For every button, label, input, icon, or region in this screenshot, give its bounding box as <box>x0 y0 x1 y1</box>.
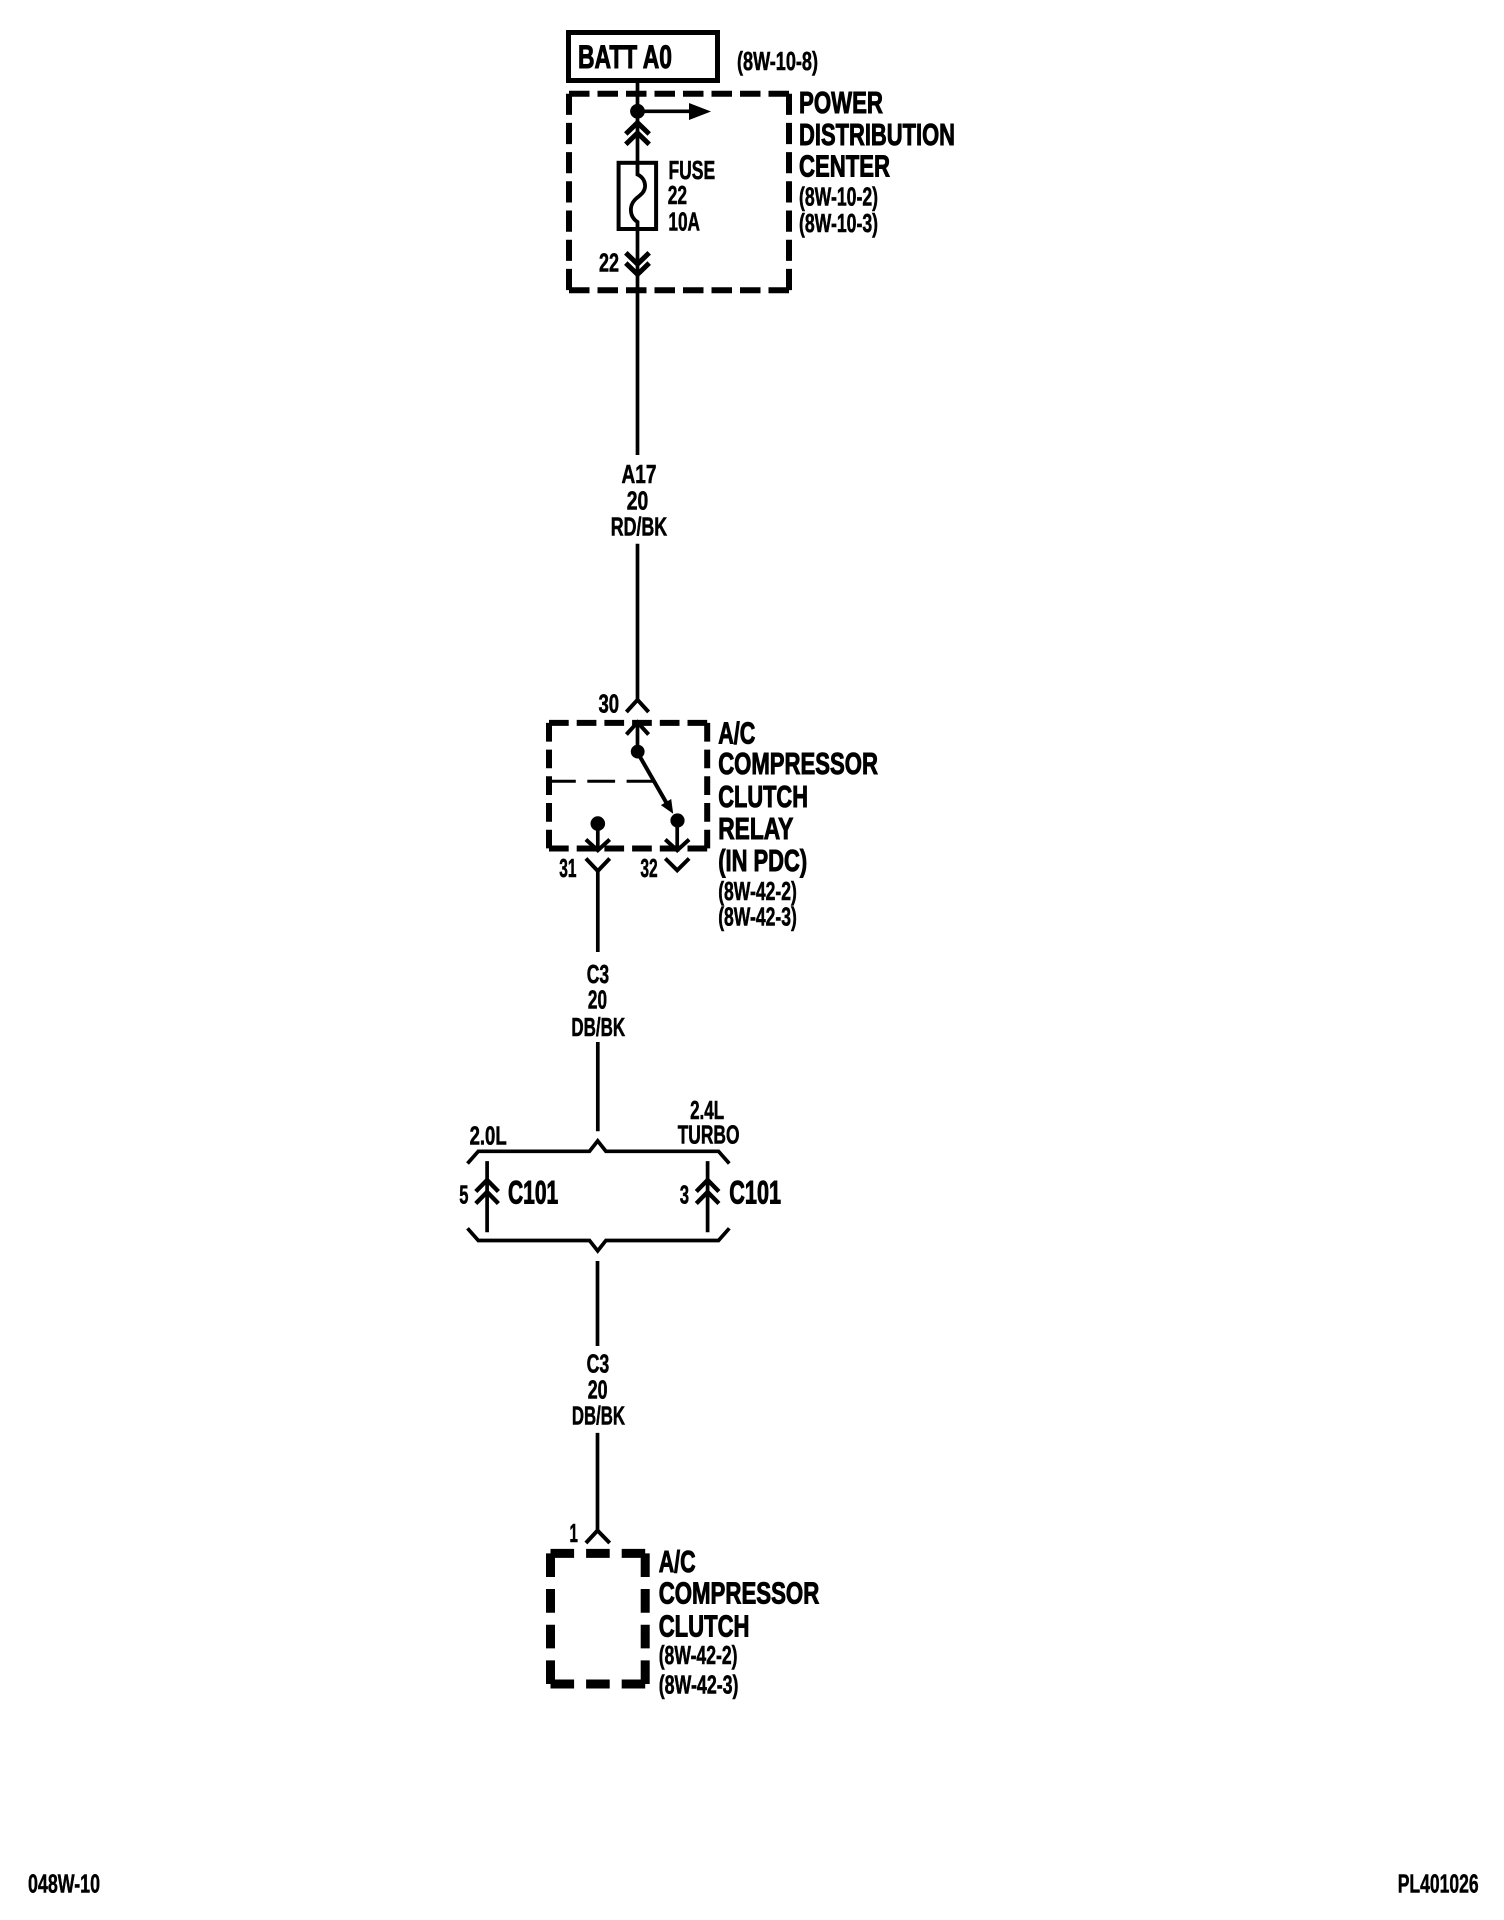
pin32 arrow chevron inside <box>665 840 689 851</box>
splice bottom brace <box>468 1228 730 1251</box>
svg-text:DB/BK: DB/BK <box>572 1401 625 1431</box>
references (8W-10-2)(8W-10-3) <box>799 182 878 238</box>
svg-text:RELAY: RELAY <box>718 811 793 846</box>
relay contact dot pin 32 <box>670 813 684 827</box>
svg-text:CLUTCH: CLUTCH <box>659 1609 750 1644</box>
svg-text:30: 30 <box>599 689 620 719</box>
svg-text:2.0L: 2.0L <box>470 1121 507 1151</box>
svg-text:3: 3 <box>680 1179 689 1209</box>
wire label C3 20 DB/BK (lower) <box>572 1349 625 1431</box>
svg-text:(8W-42-2): (8W-42-2) <box>659 1640 738 1670</box>
svg-text:(8W-42-3): (8W-42-3) <box>718 902 797 932</box>
clutch caption <box>659 1544 820 1644</box>
svg-text:048W-10: 048W-10 <box>28 1869 100 1899</box>
svg-text:A17: A17 <box>622 459 657 489</box>
svg-text:22: 22 <box>599 248 619 278</box>
relay contact dot pin 31 <box>591 816 606 831</box>
in-line connector (double chevron up) <box>626 123 649 145</box>
wire BATT A0 to fuse <box>636 83 640 163</box>
svg-text:COMPRESSOR: COMPRESSOR <box>659 1576 820 1611</box>
svg-text:CENTER: CENTER <box>799 149 890 184</box>
junction dot <box>630 104 645 119</box>
wire C3 to clutch pin 1 <box>596 1433 600 1530</box>
references (8W-42-2)(8W-42-3) <box>659 1640 739 1700</box>
wire relay pin31 down <box>596 871 600 952</box>
relay switch arm <box>638 753 667 803</box>
svg-text:1: 1 <box>570 1518 578 1548</box>
svg-text:(8W-10-3): (8W-10-3) <box>799 208 878 238</box>
wire brace to C3 label <box>596 1261 600 1346</box>
svg-text:DISTRIBUTION: DISTRIBUTION <box>799 117 955 152</box>
svg-text:5: 5 <box>459 1179 468 1209</box>
power distribution center dashed box <box>569 94 789 291</box>
splice top brace <box>468 1141 730 1164</box>
svg-text:C101: C101 <box>729 1174 781 1210</box>
relay common wire to switch pivot <box>636 724 640 747</box>
C101 right branch wire <box>706 1161 710 1232</box>
fuse label FUSE 22 10A <box>668 155 715 237</box>
svg-text:TURBO: TURBO <box>678 1120 740 1150</box>
node BATT A0 feed box <box>569 33 718 81</box>
svg-text:RD/BK: RD/BK <box>611 512 668 542</box>
svg-text:(IN PDC): (IN PDC) <box>718 843 807 878</box>
svg-text:COMPRESSOR: COMPRESSOR <box>718 746 878 781</box>
relay caption <box>718 716 878 878</box>
pin 30 connector chevron (outside) <box>626 700 648 712</box>
wire C3 to splice brace <box>596 1042 600 1131</box>
C101 right connector chevrons <box>696 1180 719 1204</box>
pin 32 connector chevron below box <box>665 859 689 871</box>
C101 left connector chevrons <box>476 1180 499 1204</box>
arrow branch to right <box>638 109 694 113</box>
A/C compressor clutch dashed box <box>551 1553 646 1684</box>
relay switch arm arrowhead <box>661 799 673 814</box>
svg-text:BATT A0: BATT A0 <box>578 39 672 75</box>
pin 31 connector chevron below box <box>586 859 610 872</box>
svg-text:PL401026: PL401026 <box>1398 1869 1479 1899</box>
references (8W-42-2)(8W-42-3) <box>718 876 797 932</box>
svg-text:(8W-10-8): (8W-10-8) <box>737 46 818 76</box>
svg-text:20: 20 <box>588 985 607 1015</box>
svg-text:32: 32 <box>640 853 657 883</box>
svg-text:22: 22 <box>668 180 687 210</box>
svg-text:A/C: A/C <box>659 1544 696 1579</box>
svg-text:POWER: POWER <box>799 85 883 120</box>
fuse 22 body <box>619 163 657 229</box>
C101 left branch wire <box>485 1161 489 1232</box>
fuse element curve <box>631 163 645 231</box>
svg-text:C101: C101 <box>508 1174 558 1210</box>
relay internal divider (dashed) <box>548 780 655 783</box>
svg-text:31: 31 <box>559 853 576 883</box>
wire pin32 dot to box edge <box>675 826 679 849</box>
wire label C3 20 DB/BK (upper) <box>571 959 625 1042</box>
relay pivot dot (pin 30) <box>631 745 645 759</box>
pin 1 connector chevron <box>586 1531 610 1544</box>
PDC caption <box>799 85 955 184</box>
svg-text:DB/BK: DB/BK <box>571 1012 625 1042</box>
svg-text:(8W-42-3): (8W-42-3) <box>659 1670 739 1700</box>
wire pin31 dot to box edge <box>596 828 600 849</box>
wire fuse to PDC exit <box>636 231 640 455</box>
svg-text:CLUTCH: CLUTCH <box>718 779 808 814</box>
pin 30 connector chevron (inside box) <box>626 722 648 734</box>
A/C compressor clutch relay dashed box <box>549 723 707 849</box>
svg-text:10A: 10A <box>668 207 700 237</box>
wire A17 to relay pin 30 <box>636 544 640 699</box>
wire label A17 20 RD/BK <box>611 459 668 542</box>
PDC output connector (double chevron down) <box>626 253 649 275</box>
pin31 arrow chevron inside <box>586 840 610 851</box>
